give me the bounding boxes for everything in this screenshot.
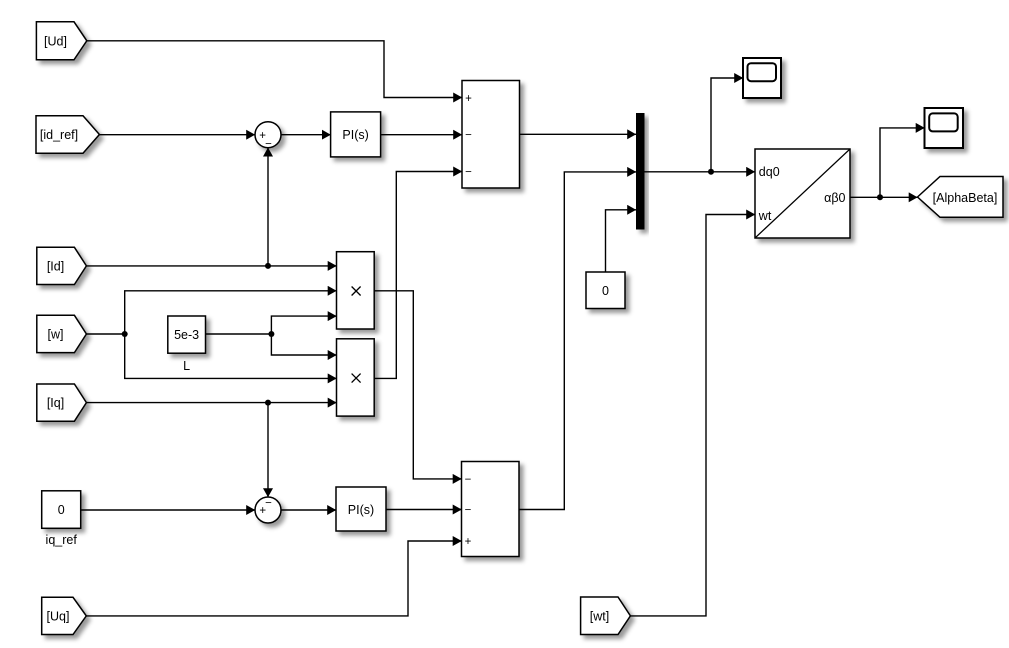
label L <box>183 359 190 373</box>
wire Mux out to dq0 input <box>645 171 756 173</box>
svg-text:PI(s): PI(s) <box>342 128 368 142</box>
wire Iq to Product2 in3 <box>86 402 336 404</box>
svg-text:[w]: [w] <box>48 328 64 342</box>
wire w branch to Product1 in2 <box>125 291 337 334</box>
svg-text:[Uq]: [Uq] <box>47 609 70 623</box>
wire L gain out to junction <box>206 333 272 335</box>
wire id_ref to SumJ1 <box>99 134 255 136</box>
svg-text:−: − <box>465 504 472 516</box>
svg-text:−: − <box>265 138 272 150</box>
wire L branch to Product1 in3 <box>271 316 336 334</box>
wire Sum1 to Mux in1 <box>519 133 636 135</box>
svg-text:0: 0 <box>602 284 609 298</box>
PI controller U1 <box>331 112 381 157</box>
from tag Ud <box>36 22 86 60</box>
sum block 1 <box>462 81 520 189</box>
svg-text:+: + <box>465 93 472 105</box>
product block 1 <box>337 252 375 329</box>
label iq_ref <box>46 533 78 547</box>
svg-text:PI(s): PI(s) <box>348 503 374 517</box>
product block 2 <box>337 339 375 416</box>
svg-text:L: L <box>183 359 190 373</box>
wire Id to Product1 in1 <box>86 265 336 267</box>
wire iq_ref to SumJ2 <box>81 509 255 511</box>
svg-text:[Id]: [Id] <box>47 260 64 274</box>
wire transform out to AlphaBeta <box>850 196 918 198</box>
wire Uq to Sum2 in3 <box>86 541 461 616</box>
svg-text:−: − <box>465 166 472 178</box>
transform block dq0 to alphabeta0 <box>755 149 850 238</box>
scope 1 <box>743 58 781 98</box>
sum junction 2 <box>255 497 281 523</box>
junction dot Iq <box>265 400 271 406</box>
wire Constant0 to Mux in3 <box>606 210 637 272</box>
wire Sum2 to Mux in2 <box>519 172 636 510</box>
wire PI1 to Sum1 in2 <box>381 134 462 136</box>
wire branch to Scope1 <box>711 78 743 172</box>
wire branch to Scope2 <box>880 128 925 197</box>
gain L 5e-3 <box>168 316 206 353</box>
from tag id_ref <box>36 116 99 154</box>
svg-text:dq0: dq0 <box>759 165 780 179</box>
svg-text:αβ0: αβ0 <box>824 191 845 205</box>
svg-text:[wt]: [wt] <box>590 609 609 623</box>
junction dot w <box>122 331 128 337</box>
svg-text:5e-3: 5e-3 <box>174 328 199 342</box>
junction dot Id <box>265 263 271 269</box>
from tag wt <box>581 597 631 635</box>
wire Product1 out to Sum2 in1 <box>374 291 461 479</box>
svg-text:−: − <box>465 474 472 486</box>
from tag Uq <box>42 597 87 634</box>
from tag Iq <box>37 384 87 421</box>
svg-text:iq_ref: iq_ref <box>46 533 78 547</box>
wire Ud to Sum1 in1 <box>87 41 462 98</box>
junction dot transform out <box>877 194 883 200</box>
sum junction 1 <box>255 122 281 151</box>
wire Product2 out to Sum1 in3 <box>374 172 462 379</box>
wire Id feedback up to SumJ1 <box>267 148 269 266</box>
svg-text:−: − <box>465 130 472 142</box>
wire SumJ1 to PI1 <box>281 134 331 136</box>
svg-text:[AlphaBeta]: [AlphaBeta] <box>933 191 998 205</box>
constant iq_ref 0 <box>42 491 81 529</box>
junction dot L out <box>268 331 274 337</box>
goto tag AlphaBeta <box>918 177 1004 218</box>
svg-text:wt: wt <box>758 209 772 223</box>
svg-text:[Ud]: [Ud] <box>44 34 67 48</box>
svg-text:−: − <box>265 498 272 510</box>
mux <box>636 113 645 230</box>
sum block 2 <box>462 462 520 557</box>
PI controller U2 <box>336 487 386 531</box>
svg-text:[id_ref]: [id_ref] <box>40 128 78 142</box>
wire w to junction <box>86 333 124 335</box>
from tag w <box>37 315 87 352</box>
svg-text:0: 0 <box>58 503 65 517</box>
svg-text:+: + <box>465 536 472 548</box>
wire PI2 to Sum2 in2 <box>386 509 462 511</box>
wire wt to transform wt input <box>630 215 755 616</box>
wire L branch to Product2 in1 <box>271 334 336 355</box>
from tag Id <box>37 247 87 284</box>
svg-text:[Iq]: [Iq] <box>47 396 64 410</box>
junction dot mux out <box>708 169 714 175</box>
wire SumJ2 to PI2 <box>281 509 336 511</box>
wire w branch to Product2 in2 <box>125 334 337 378</box>
constant 0 <box>586 272 625 309</box>
scope 2 <box>925 108 964 148</box>
wire Iq down to SumJ2 <box>267 403 269 497</box>
